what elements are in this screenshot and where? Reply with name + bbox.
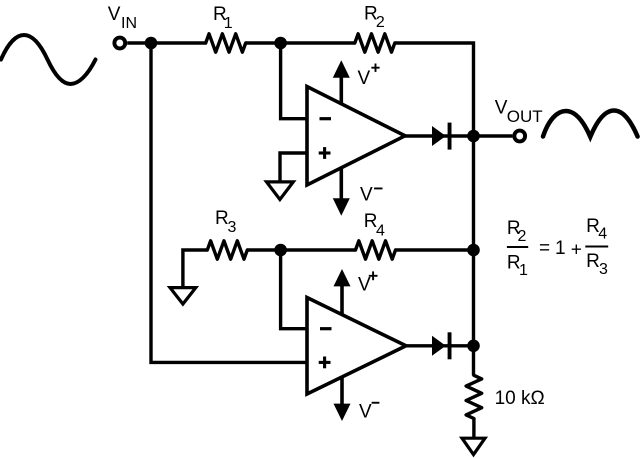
label VOUT <box>495 97 543 126</box>
svg-text:2: 2 <box>518 228 527 245</box>
svg-text:V: V <box>495 97 508 118</box>
wire 10k resistor to ground <box>472 419 475 438</box>
input sine waveform <box>1 35 96 84</box>
svg-text:3: 3 <box>599 261 608 278</box>
wire ground to R3 <box>183 250 207 287</box>
output waveform (full-wave rectified) <box>543 111 638 137</box>
resistor R4 <box>356 241 396 259</box>
svg-text:V: V <box>358 68 371 89</box>
svg-text:10 kΩ: 10 kΩ <box>495 388 545 409</box>
diode D2 <box>432 332 452 359</box>
wire node E to R4 <box>281 248 356 251</box>
svg-text:1: 1 <box>224 15 233 32</box>
svg-text:4: 4 <box>376 222 385 239</box>
label R2 <box>364 3 385 31</box>
wire U2 output to node G <box>406 344 474 347</box>
wire U1 output to node VOUT <box>405 134 474 137</box>
V+ label U1 <box>358 64 380 89</box>
V- supply arrow U2 <box>334 377 351 421</box>
resistor R3 <box>207 241 247 259</box>
resistor R2 <box>355 34 395 52</box>
junction node VOUT <box>467 130 480 143</box>
V+ supply arrow U2 <box>334 269 351 316</box>
wire U1 non-inverting input to ground <box>280 153 307 182</box>
wire R1 to node B <box>246 41 355 44</box>
formula fraction bar right <box>585 246 608 248</box>
svg-text:1: 1 <box>555 238 566 259</box>
formula fraction bar left <box>507 246 528 248</box>
svg-text:IN: IN <box>121 15 137 32</box>
V- supply arrow U1 <box>333 167 350 216</box>
op-amp U2 <box>307 298 406 395</box>
wire node VOUT to output terminal <box>474 134 513 137</box>
junction node A <box>145 37 158 50</box>
svg-text:3: 3 <box>228 219 237 236</box>
wire node A to U2 non-inverting input <box>151 43 307 362</box>
diode D1 <box>432 123 452 150</box>
V+ supply arrow U1 <box>333 60 350 104</box>
wire node B to U1 inverting input <box>281 43 307 119</box>
op-amp U1 <box>307 87 405 186</box>
label R3 <box>215 208 237 236</box>
svg-text:4: 4 <box>598 226 607 243</box>
wire input terminal to node A <box>127 41 206 44</box>
label R1 <box>213 4 233 32</box>
svg-text:V: V <box>359 401 372 422</box>
wire node VOUT to node F (right rail) <box>472 136 475 250</box>
wire node E to U2 inverting input <box>281 250 307 329</box>
node VIN label <box>108 4 137 32</box>
junction node E <box>274 244 287 257</box>
junction node F <box>467 244 480 257</box>
svg-text:OUT: OUT <box>507 107 543 126</box>
label R4 <box>364 211 385 239</box>
svg-text:R: R <box>586 251 600 272</box>
svg-text:V: V <box>108 4 121 25</box>
wire R3 to node E <box>247 248 280 251</box>
wire node F to node G (right rail) <box>472 250 475 346</box>
V+ label U2 <box>358 271 378 295</box>
ground (output load) <box>462 438 485 454</box>
svg-text:V: V <box>360 184 373 205</box>
formula R2/R1 = 1 + R4/R3 <box>507 216 608 279</box>
ground (U1 non-inverting input) <box>267 182 294 200</box>
junction node B <box>274 37 287 50</box>
input terminal <box>114 38 125 49</box>
junction node G <box>467 340 480 353</box>
resistor R1 <box>206 34 246 52</box>
resistor 10 kOhm <box>466 375 482 418</box>
svg-text:V: V <box>358 274 371 295</box>
wire R2 to node VOUT (right rail top) <box>395 43 474 136</box>
wire R4 to node F <box>396 248 474 251</box>
svg-text:2: 2 <box>376 14 385 31</box>
svg-text:=: = <box>539 238 550 259</box>
V- label U1 <box>360 184 383 205</box>
output terminal <box>514 131 525 142</box>
svg-text:1: 1 <box>519 262 528 279</box>
wire node G to 10k resistor <box>472 346 475 376</box>
svg-text:+: + <box>571 239 582 260</box>
V- label U2 <box>359 401 379 422</box>
ground (R3) <box>170 288 196 304</box>
